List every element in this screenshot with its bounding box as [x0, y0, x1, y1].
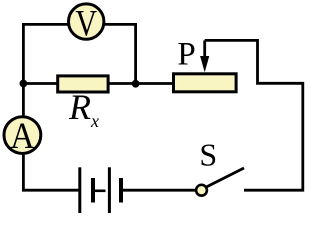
svg-text:R: R [68, 87, 91, 127]
svg-text:x: x [90, 111, 99, 131]
svg-text:P: P [177, 36, 195, 72]
svg-text:A: A [10, 114, 35, 156]
svg-text:V: V [75, 3, 97, 44]
svg-text:S: S [199, 137, 217, 173]
